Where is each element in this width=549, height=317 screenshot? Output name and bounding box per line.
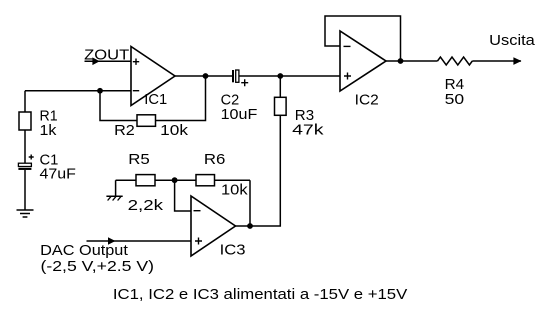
svg-text:IC3: IC3 bbox=[220, 242, 246, 259]
svg-text:10k: 10k bbox=[221, 181, 248, 198]
svg-text:IC1, IC2 e IC3 alimentati a -1: IC1, IC2 e IC3 alimentati a -15V e +15V bbox=[113, 286, 407, 303]
svg-text:47k: 47k bbox=[292, 122, 324, 139]
svg-text:R5: R5 bbox=[128, 151, 150, 168]
svg-text:1k: 1k bbox=[40, 122, 57, 139]
svg-text:R2: R2 bbox=[114, 122, 135, 139]
svg-text:10k: 10k bbox=[160, 122, 188, 139]
svg-text:DAC Output: DAC Output bbox=[40, 242, 129, 259]
svg-text:IC2: IC2 bbox=[355, 91, 379, 108]
svg-text:Uscita: Uscita bbox=[489, 32, 535, 49]
svg-text:50: 50 bbox=[445, 91, 465, 108]
svg-text:R6: R6 bbox=[204, 151, 226, 168]
svg-text:2,2k: 2,2k bbox=[128, 197, 164, 214]
svg-text:IC1: IC1 bbox=[144, 91, 167, 108]
svg-text:10uF: 10uF bbox=[221, 106, 258, 123]
svg-text:ZOUT: ZOUT bbox=[84, 47, 129, 64]
svg-text:(-2,5 V,+2.5 V): (-2,5 V,+2.5 V) bbox=[41, 258, 155, 275]
svg-text:47uF: 47uF bbox=[40, 166, 76, 183]
